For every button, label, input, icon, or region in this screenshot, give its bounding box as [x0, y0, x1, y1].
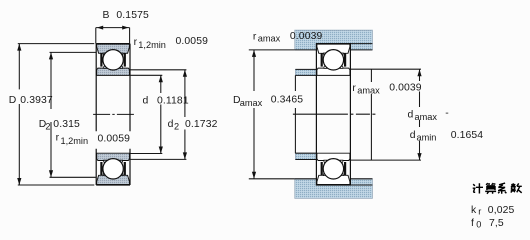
svg-text:2: 2	[174, 122, 179, 132]
shaft shoulder edges	[295, 69, 316, 159]
svg-text:D: D	[9, 95, 17, 106]
svg-text:r: r	[56, 133, 60, 144]
cage top	[100, 53, 102, 66]
housing step edges	[295, 44, 373, 185]
svg-text:r: r	[352, 83, 356, 94]
svg-text:amax: amax	[258, 34, 281, 44]
outer ring bottom	[317, 175, 350, 184]
系	[498, 183, 506, 194]
dimension d	[130, 75, 162, 153]
svg-text:1,2min: 1,2min	[138, 40, 166, 50]
cage top	[321, 53, 323, 66]
chinese title 计算系数 (drawn strokes)	[473, 183, 522, 194]
bearing outline right	[316, 44, 350, 185]
dimension d2	[130, 70, 186, 160]
dimension Damax	[249, 50, 295, 179]
inner ring top	[317, 68, 350, 75]
outer ring groove shoulders bottom	[324, 172, 327, 176]
outer ring groove shoulders top	[103, 53, 106, 57]
svg-text:0.1575: 0.1575	[116, 10, 149, 21]
housing top (blue)	[295, 30, 373, 50]
svg-text:0: 0	[476, 220, 481, 230]
svg-text:d: d	[408, 110, 414, 121]
outer ring groove shoulders top	[324, 53, 327, 57]
dimension B	[96, 28, 130, 44]
shaft shoulder face line	[294, 75, 296, 153]
svg-text:0.0059: 0.0059	[176, 36, 209, 47]
svg-text:0.3937: 0.3937	[20, 95, 53, 106]
svg-text:r: r	[478, 207, 481, 217]
cage bottom	[321, 162, 323, 175]
svg-text:0.1181: 0.1181	[157, 95, 189, 106]
svg-text:0.0039: 0.0039	[290, 31, 323, 42]
svg-text:0.0039: 0.0039	[389, 83, 422, 94]
svg-text:-: -	[445, 108, 449, 119]
svg-text:1,2min: 1,2min	[61, 136, 89, 146]
cage bottom	[100, 162, 102, 175]
outer ring top	[317, 44, 350, 53]
inner ring bottom	[97, 153, 130, 160]
inner ring groove shoulders top	[104, 66, 107, 69]
svg-text:0.1732: 0.1732	[185, 119, 218, 130]
svg-text:0,025: 0,025	[488, 205, 515, 216]
shaft shoulder top (blue)	[295, 69, 316, 75]
svg-text:B: B	[103, 10, 110, 21]
svg-text:r: r	[134, 37, 138, 48]
svg-text:d: d	[168, 119, 174, 130]
svg-text:0.1654: 0.1654	[451, 130, 484, 141]
centerline left figure	[93, 113, 134, 115]
svg-text:f: f	[471, 218, 474, 229]
svg-text:0.315: 0.315	[53, 119, 80, 130]
svg-text:k: k	[471, 205, 477, 216]
outer ring bottom	[97, 175, 130, 184]
inner ring groove shoulders top	[324, 66, 327, 69]
dimension da (right side)	[350, 69, 422, 160]
计	[473, 183, 483, 193]
dimension D2	[50, 52, 97, 177]
svg-text:d: d	[410, 130, 416, 141]
vertical connector line	[370, 69, 372, 160]
svg-text:0.3465: 0.3465	[271, 95, 304, 106]
ball bottom	[323, 159, 343, 179]
inner ring groove shoulders bottom	[324, 160, 327, 163]
shaft shoulder bottom (blue)	[295, 153, 316, 159]
svg-text:amax: amax	[357, 86, 380, 96]
bearing outline left	[96, 44, 130, 185]
数	[511, 183, 522, 193]
outer ring groove shoulders bottom	[103, 172, 106, 176]
housing bottom (blue)	[295, 179, 373, 199]
outer ring top	[97, 44, 130, 53]
svg-text:amin: amin	[417, 132, 437, 142]
svg-text:0.0059: 0.0059	[98, 134, 131, 145]
dimension D	[18, 44, 95, 185]
svg-text:7,5: 7,5	[489, 218, 504, 229]
svg-text:2: 2	[45, 121, 50, 131]
ball top	[323, 50, 343, 70]
svg-text:amax: amax	[415, 112, 438, 122]
centerline right figure	[293, 113, 376, 115]
inner ring groove shoulders bottom	[104, 160, 107, 163]
ball top	[103, 50, 123, 70]
svg-text:d: d	[143, 95, 149, 106]
inner ring top	[97, 68, 130, 75]
svg-text:r: r	[253, 31, 257, 42]
算	[485, 183, 496, 194]
svg-text:amax: amax	[240, 98, 263, 108]
ball bottom	[103, 159, 123, 179]
inner ring bottom	[317, 153, 350, 160]
